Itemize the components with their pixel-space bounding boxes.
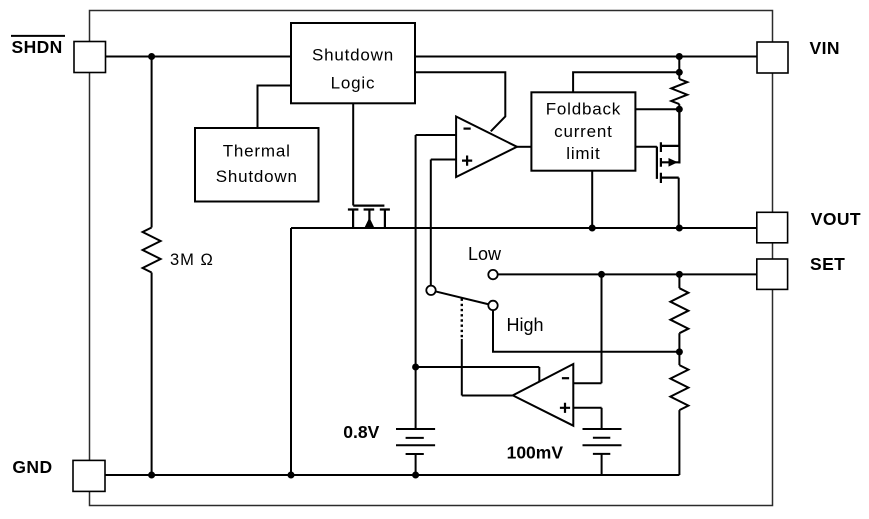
pad SET [757, 259, 788, 289]
svg-text:current: current [554, 122, 613, 141]
op-amp U1 error amplifier [456, 117, 517, 178]
svg-text:SET: SET [810, 254, 845, 274]
resistor R1 (divider top) [670, 288, 688, 333]
wire 3M resistor bottom to GND rail [151, 273, 153, 476]
wire Foldback box to PMOS gate [635, 146, 657, 148]
block Foldback current limit [531, 92, 635, 170]
op-amp U2 comparator [513, 364, 574, 426]
wire Shutdown Logic to VIN pad [415, 56, 757, 58]
junction node on SHDN wire [148, 53, 155, 60]
wire NMOS source to GND rail [290, 228, 292, 475]
wire comparator non-inverting input to 100mV battery [573, 408, 601, 429]
wire divider top lead R1 [678, 274, 680, 288]
wire sense resistor bottom to PMOS source [678, 104, 680, 146]
dashed wire switch blade actuator [461, 299, 463, 339]
junction node GND rail / 3M resistor [148, 472, 155, 479]
wire Foldback box bottom to VOUT rail [591, 171, 593, 228]
svg-text:Low: Low [468, 244, 502, 264]
wire comparator output to switch blade [462, 339, 513, 396]
transistor Q2 PMOS pass device [657, 109, 680, 183]
wire Shutdown Logic to NMOS gate [352, 103, 354, 205]
wire reference node to comparator top edge [416, 367, 540, 382]
svg-text:VOUT: VOUT [811, 209, 861, 229]
pad VIN [757, 42, 788, 73]
svg-text:Thermal: Thermal [223, 142, 291, 161]
svg-text:Logic: Logic [331, 74, 376, 93]
wire SHDN pad to Shutdown Logic [106, 56, 292, 58]
wire Shutdown Logic to error amp top edge [415, 72, 505, 131]
junction node SET rail / comparator branch [598, 271, 605, 278]
wire vertical from SHDN node down to 3M resistor [151, 57, 153, 228]
wire GND rail [105, 474, 679, 476]
junction node reference 0.8V [412, 364, 419, 371]
junction node GND rail / NMOS source [288, 472, 295, 479]
minus sign U2 [562, 377, 569, 379]
svg-text:Shutdown: Shutdown [312, 46, 394, 65]
battery 0.8V reference [396, 429, 435, 454]
svg-text:SHDN: SHDN [12, 37, 63, 57]
svg-text:3M Ω: 3M Ω [170, 251, 214, 269]
wire 0.8V battery bottom lead [415, 454, 417, 475]
wire R2 bottom to GND rail [678, 410, 680, 475]
svg-text:VIN: VIN [810, 38, 840, 58]
junction node divider tap [676, 348, 683, 355]
resistor R2 (divider bottom) [670, 365, 688, 410]
plus sign U2 [560, 403, 570, 413]
junction node GND rail / 0.8V battery [412, 472, 419, 479]
junction node VIN column / foldback top [676, 69, 683, 76]
wire Foldback box top to VIN column [573, 72, 679, 92]
switch common contact [426, 286, 435, 295]
block Thermal Shutdown [195, 128, 319, 202]
wire error amp inverting input to reference node [416, 135, 457, 367]
junction node VOUT rail / PMOS drain [676, 225, 683, 232]
switch contact High [488, 301, 497, 310]
wire PMOS bottom lead to VOUT rail [678, 178, 680, 228]
battery 100mV reference [583, 429, 622, 454]
transistor Q1 NMOS (shutdown discharge) [348, 206, 390, 228]
junction node sense resistor bottom [676, 106, 683, 113]
svg-text:Shutdown: Shutdown [216, 167, 298, 186]
switch blade [431, 290, 493, 305]
wire error amp non-inverting input to switch common [431, 160, 456, 286]
wire error amp output to Foldback box [517, 146, 532, 148]
wire VOUT rail [291, 227, 757, 229]
svg-text:100mV: 100mV [507, 443, 564, 463]
block Shutdown Logic [291, 23, 415, 103]
minus sign U1 [464, 128, 471, 130]
wire 100mV battery bottom lead [601, 454, 603, 475]
svg-text:limit: limit [566, 144, 600, 163]
svg-text:0.8V: 0.8V [343, 422, 379, 442]
svg-text:High: High [507, 315, 544, 335]
pad SHDN [74, 42, 106, 73]
junction node VIN column top [676, 53, 683, 60]
wire SET rail (Low contact to SET pad) [498, 273, 757, 275]
wire 0.8V battery top lead [415, 367, 417, 429]
IC outline border [90, 11, 773, 506]
switch contact Low [488, 270, 497, 279]
resistor 3M ohm [143, 228, 161, 273]
wire comparator inverting input up to SET rail [573, 274, 601, 383]
svg-text:Foldback: Foldback [546, 100, 621, 119]
pad VOUT [757, 212, 788, 243]
wire VIN column upper segment [678, 57, 680, 80]
wire Foldback box right to sense node [635, 108, 679, 110]
junction node SET rail / divider top [676, 271, 683, 278]
resistor current sense (VIN column) [671, 79, 687, 104]
svg-text:GND: GND [12, 457, 52, 477]
wire R1 bottom to tap [678, 333, 680, 365]
wire High contact down and right to divider tap [493, 310, 679, 352]
junction node VOUT rail / foldback bottom [589, 225, 596, 232]
plus sign U1 [462, 156, 472, 166]
wire Thermal Shutdown to Shutdown Logic [258, 86, 292, 129]
pad GND [73, 460, 105, 491]
